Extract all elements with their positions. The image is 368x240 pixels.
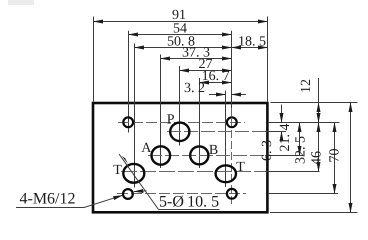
extension line bottom edge right [270, 212, 358, 214]
svg-text:32. 5: 32. 5 [294, 136, 309, 164]
bolt hole bottom-left [123, 189, 133, 199]
extension line right bolt column [231, 31, 233, 108]
dimension 27 [180, 70, 232, 72]
centerline T row [121, 171, 265, 173]
svg-text:P: P [167, 112, 175, 127]
bolt hole bottom-right [227, 189, 237, 199]
port B hole [190, 146, 208, 164]
svg-text:46: 46 [310, 151, 325, 165]
extension line T-left column [134, 44, 136, 188]
svg-text:70: 70 [328, 149, 343, 163]
extension line left bolt column [128, 31, 130, 133]
dimension 70 [350, 103, 352, 213]
centerline P row [167, 131, 265, 133]
port P hole [170, 123, 189, 141]
dimension 46 [334, 123, 336, 194]
dimension 12 vertical [318, 78, 320, 103]
extension line left edge [93, 17, 95, 102]
extension line top edge right [271, 102, 358, 104]
port T-left hole [123, 164, 144, 183]
dimension 54 [129, 34, 232, 36]
dimension 16.7 [200, 82, 232, 84]
svg-text:T: T [236, 160, 245, 175]
dimension 18.5 [232, 47, 268, 49]
dimension 6.3 outside arrows [281, 105, 283, 123]
dimension 37.3 [161, 58, 232, 60]
svg-text:21. 4: 21. 4 [278, 124, 293, 152]
dimension 32.5 [318, 123, 320, 172]
centerline A B row [148, 155, 265, 157]
valve body outline [93, 103, 267, 212]
svg-text:5-Ø 10. 5: 5-Ø 10. 5 [159, 194, 219, 211]
bolt hole top-left [123, 117, 133, 127]
svg-text:4-M6/12: 4-M6/12 [20, 191, 76, 208]
faint scrollbar smudge top-left [8, 0, 34, 5]
extension line T-right column [225, 91, 227, 188]
dimension 91 [94, 21, 268, 23]
port T-right hole [216, 165, 236, 182]
extension line top bolt row right [268, 122, 340, 124]
svg-text:16. 7: 16. 7 [202, 69, 230, 84]
extension line B column [199, 78, 201, 168]
leader branch to bolt hole [134, 190, 147, 193]
extension line P column [179, 66, 181, 146]
svg-text:3. 2: 3. 2 [184, 81, 205, 96]
dimension 3.2 outside arrows [209, 94, 226, 96]
dimension 21.4 [299, 123, 301, 156]
centerline top bolt row inside [118, 122, 245, 124]
svg-text:T: T [113, 163, 122, 178]
extension line A column [160, 55, 162, 169]
bolt hole top-right [227, 117, 237, 127]
svg-text:18. 5: 18. 5 [238, 35, 266, 50]
svg-text:12: 12 [299, 79, 314, 93]
svg-text:A: A [141, 141, 152, 156]
extension line right edge [267, 17, 269, 102]
svg-text:6. 3: 6. 3 [260, 140, 275, 161]
port A hole [152, 146, 171, 164]
dimension 50.8 [135, 47, 232, 49]
svg-text:B: B [209, 143, 218, 158]
centerline bottom bolt row [117, 193, 246, 195]
